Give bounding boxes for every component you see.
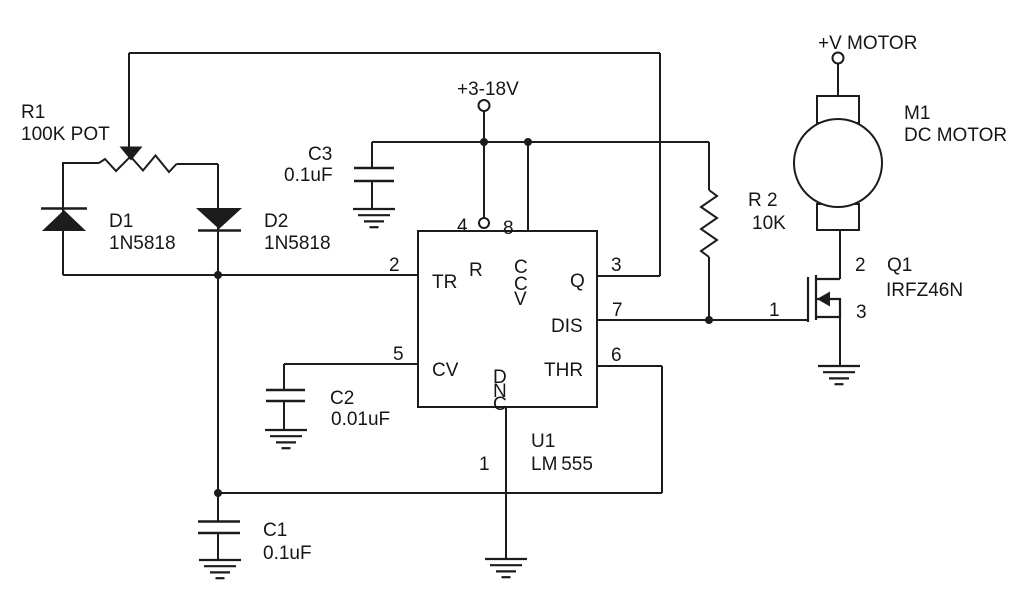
svg-text:V: V <box>514 289 527 310</box>
svg-text:C2: C2 <box>330 388 354 409</box>
transistor Q1 MOSFET <box>808 275 840 322</box>
capacitor C3 <box>354 168 394 181</box>
diode D1 <box>41 209 87 232</box>
ground below C1 <box>199 560 241 578</box>
svg-text:0.01uF: 0.01uF <box>331 409 390 430</box>
potentiometer R1 <box>99 147 177 173</box>
svg-text:100K POT: 100K POT <box>21 124 110 145</box>
wire Q output riser <box>659 53 661 276</box>
resistor R2 <box>701 190 717 257</box>
wire R2 bottom lead <box>708 257 710 320</box>
svg-text:U1: U1 <box>531 431 555 452</box>
svg-text:TR: TR <box>432 272 457 293</box>
pin label GND vertical <box>493 367 507 415</box>
wire pin 5 CV <box>284 363 418 365</box>
wire Q1 source lead <box>839 317 841 366</box>
svg-text:D2: D2 <box>264 211 288 232</box>
ground below pin 1 <box>485 559 527 577</box>
svg-text:1: 1 <box>769 300 780 321</box>
wire C1 top lead <box>217 493 219 521</box>
ground below C3 <box>353 209 395 227</box>
svg-text:+3-18V: +3-18V <box>457 79 519 100</box>
svg-text:Q1: Q1 <box>887 255 912 276</box>
svg-text:M1: M1 <box>904 103 930 124</box>
svg-text:1N5818: 1N5818 <box>264 233 331 254</box>
junction dot gate wire at R2 <box>705 316 713 324</box>
wire TR node horizontal to pin 2 <box>63 274 418 276</box>
Q1 arrow <box>817 292 830 307</box>
svg-text:C: C <box>493 394 507 415</box>
svg-text:IRFZ46N: IRFZ46N <box>886 280 963 301</box>
pin 4 terminal circle <box>479 218 489 228</box>
wire pin 8 drop <box>527 142 529 231</box>
ground below Q1 source <box>818 366 860 384</box>
junction dot TR node at D2 <box>214 271 222 279</box>
junction dot supply at pin4 drop <box>480 138 488 146</box>
junction dot supply at pin8 drop <box>524 138 532 146</box>
wire C2 top lead <box>283 364 285 390</box>
wire THR riser <box>661 366 663 493</box>
svg-text:5: 5 <box>393 344 404 365</box>
capacitor C1 <box>198 522 240 534</box>
svg-text:10K: 10K <box>752 213 786 234</box>
svg-text:D1: D1 <box>109 211 133 232</box>
wire pin 3 Q <box>597 275 660 277</box>
capacitor C2 <box>266 390 305 401</box>
svg-text:+V MOTOR: +V MOTOR <box>818 33 917 54</box>
wire D2 branch vertical <box>217 164 219 275</box>
svg-text:2: 2 <box>389 255 400 276</box>
svg-text:C3: C3 <box>308 144 332 165</box>
wire R2 top lead <box>708 142 710 190</box>
wire pot wiper riser <box>128 53 130 148</box>
svg-text:Q: Q <box>570 271 585 292</box>
svg-text:2: 2 <box>855 255 866 276</box>
wire C2 bottom lead <box>283 401 285 430</box>
junction dot bottom node at C1 <box>214 489 222 497</box>
svg-text:R1: R1 <box>21 102 45 123</box>
svg-text:3: 3 <box>611 255 622 276</box>
svg-text:R 2: R 2 <box>748 190 778 211</box>
supply terminal +3-18V <box>479 100 490 111</box>
wire top rail pot wiper to Q output <box>129 52 660 54</box>
wire motor bottom lead to drain <box>839 230 841 279</box>
svg-text:0.1uF: 0.1uF <box>284 165 333 186</box>
svg-text:3: 3 <box>856 302 867 323</box>
wire pin 7 DIS to gate <box>597 319 808 321</box>
wire motor terminal drop <box>837 63 839 96</box>
motor M1 <box>794 96 882 230</box>
wire pot left lead <box>63 163 99 275</box>
svg-text:4: 4 <box>457 216 468 237</box>
wire C3 bottom lead <box>371 181 373 209</box>
svg-text:DIS: DIS <box>551 316 583 337</box>
svg-text:1N5818: 1N5818 <box>109 233 176 254</box>
wire cap node drop <box>217 275 219 493</box>
wire C3 top lead <box>371 142 373 168</box>
pin label VCC vertical <box>514 257 528 310</box>
svg-text:0.1uF: 0.1uF <box>263 543 312 564</box>
wire pot right lead <box>177 163 219 165</box>
wire bottom node horizontal <box>218 492 662 494</box>
wire C1 bottom lead <box>217 533 219 560</box>
wire supply terminal drop to pin 4 <box>483 111 485 218</box>
wire pin 6 THR <box>597 365 662 367</box>
svg-text:THR: THR <box>544 360 583 381</box>
diode D2 <box>196 208 242 231</box>
svg-text:LM 555: LM 555 <box>531 454 593 475</box>
wire +V supply rail <box>372 141 709 143</box>
svg-text:R: R <box>469 260 483 281</box>
svg-text:8: 8 <box>503 218 514 239</box>
IC U1 LM555 box <box>418 231 597 407</box>
svg-text:1: 1 <box>479 454 490 475</box>
svg-text:DC MOTOR: DC MOTOR <box>904 125 1007 146</box>
svg-text:7: 7 <box>612 300 623 321</box>
motor supply terminal circle <box>833 53 844 64</box>
svg-text:CV: CV <box>432 360 459 381</box>
svg-text:C1: C1 <box>263 520 287 541</box>
svg-text:6: 6 <box>611 345 622 366</box>
wire pin 1 ground drop <box>505 407 507 559</box>
ground below C2 <box>265 430 307 448</box>
